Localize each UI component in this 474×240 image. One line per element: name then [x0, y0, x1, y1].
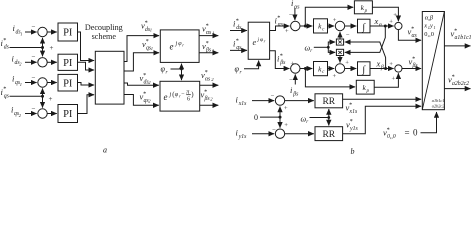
svg-text:1: 1	[20, 82, 22, 87]
svg-text:*: *	[412, 55, 415, 62]
svg-text:e: e	[170, 42, 174, 52]
svg-text:α,β: α,β	[425, 15, 434, 22]
svg-text:*: *	[349, 101, 352, 108]
svg-text:*: *	[277, 14, 280, 21]
svg-text:+: +	[392, 76, 396, 83]
svg-text:j: j	[169, 91, 172, 98]
svg-text:ds: ds	[4, 45, 10, 51]
svg-text:*: *	[204, 88, 207, 95]
svg-text:−: −	[289, 12, 293, 19]
svg-text:0,,0: 0,,0	[387, 134, 396, 140]
svg-text:p: p	[365, 89, 369, 94]
svg-text:*: *	[3, 37, 6, 44]
svg-text:−: −	[346, 32, 350, 39]
svg-text:PI: PI	[63, 58, 73, 69]
svg-text:a1b1c1: a1b1c1	[455, 35, 472, 41]
svg-text:r: r	[310, 49, 312, 54]
svg-text:*: *	[280, 52, 283, 59]
svg-text:*: *	[411, 25, 414, 32]
svg-text:x1s: x1s	[238, 101, 247, 107]
svg-text:*: *	[350, 118, 353, 125]
svg-text:−: −	[32, 73, 36, 81]
svg-text:PI: PI	[63, 109, 73, 120]
svg-text:−: −	[271, 93, 275, 100]
svg-text:0: 0	[413, 128, 418, 138]
svg-text:+: +	[285, 28, 289, 35]
svg-text:+: +	[389, 61, 393, 68]
svg-text:0: 0	[254, 113, 258, 122]
svg-text:0,,0: 0,,0	[424, 31, 434, 38]
svg-text:PI: PI	[63, 28, 73, 39]
svg-text:*: *	[236, 17, 239, 24]
svg-text:e: e	[253, 38, 257, 47]
svg-text:PI: PI	[63, 78, 73, 89]
svg-text:−: −	[32, 53, 36, 61]
svg-text:+: +	[284, 122, 288, 129]
svg-text:−: −	[289, 77, 293, 84]
svg-text:*: *	[387, 126, 390, 133]
svg-text:b: b	[351, 147, 355, 156]
svg-text:*: *	[146, 38, 149, 45]
svg-text:αs: αs	[412, 33, 418, 39]
svg-text:+: +	[345, 60, 349, 67]
svg-text:a: a	[103, 146, 107, 155]
svg-text:βs: βs	[292, 92, 299, 98]
svg-text:=: =	[405, 128, 410, 138]
svg-text:r: r	[264, 38, 266, 43]
svg-text:*: *	[145, 19, 148, 26]
svg-text:*: *	[206, 40, 209, 47]
svg-text:+: +	[284, 105, 288, 112]
svg-text:a2b2c2: a2b2c2	[452, 81, 469, 87]
svg-text:βs: βs	[279, 60, 286, 66]
svg-text:RR: RR	[322, 130, 335, 140]
svg-text:a1b1c1: a1b1c1	[432, 98, 445, 103]
svg-text:1: 1	[151, 46, 153, 51]
svg-text:scheme: scheme	[92, 32, 117, 41]
svg-text:−: −	[32, 23, 36, 31]
svg-text:RR: RR	[322, 97, 335, 107]
svg-text:*: *	[143, 90, 146, 97]
svg-text:1: 1	[212, 30, 214, 35]
svg-text:*: *	[454, 27, 457, 34]
svg-text:+: +	[393, 12, 397, 19]
svg-text:αs: αs	[205, 77, 211, 83]
svg-text:x: x	[423, 23, 427, 30]
svg-text:x: x	[374, 16, 379, 26]
svg-text:β: β	[380, 65, 384, 71]
svg-text:x: x	[376, 59, 381, 69]
svg-text:+: +	[333, 73, 337, 80]
svg-text:qs: qs	[4, 93, 10, 99]
svg-text:1: 1	[434, 25, 436, 30]
svg-text:1: 1	[150, 27, 152, 32]
svg-text:1: 1	[20, 31, 22, 36]
svg-text:+: +	[49, 95, 53, 103]
svg-text:+: +	[389, 18, 393, 25]
svg-text:*: *	[236, 37, 239, 44]
svg-text:r: r	[182, 43, 184, 48]
svg-text:*: *	[205, 69, 208, 76]
svg-text:y1s: y1s	[238, 134, 247, 140]
svg-text:r: r	[306, 120, 308, 125]
svg-text:Decoupling: Decoupling	[85, 23, 123, 32]
svg-text:*: *	[452, 73, 455, 80]
svg-text:j: j	[175, 41, 178, 47]
svg-text:*: *	[143, 72, 146, 79]
svg-text:y1s: y1s	[349, 126, 358, 132]
svg-text:6: 6	[187, 97, 190, 103]
svg-text:*: *	[206, 22, 209, 29]
svg-text:+: +	[50, 44, 54, 52]
svg-text:x1s: x1s	[349, 109, 358, 115]
svg-text:αs: αs	[206, 30, 212, 36]
svg-text:*: *	[3, 86, 6, 93]
svg-text:1: 1	[212, 48, 214, 53]
svg-text:e: e	[164, 92, 168, 102]
svg-text:αs: αs	[278, 22, 284, 28]
svg-text:y: y	[429, 23, 433, 30]
svg-text:a2b2c2: a2b2c2	[432, 103, 446, 108]
svg-text:βs: βs	[412, 63, 419, 69]
svg-text:p: p	[364, 9, 368, 14]
svg-text:−: −	[32, 104, 36, 112]
